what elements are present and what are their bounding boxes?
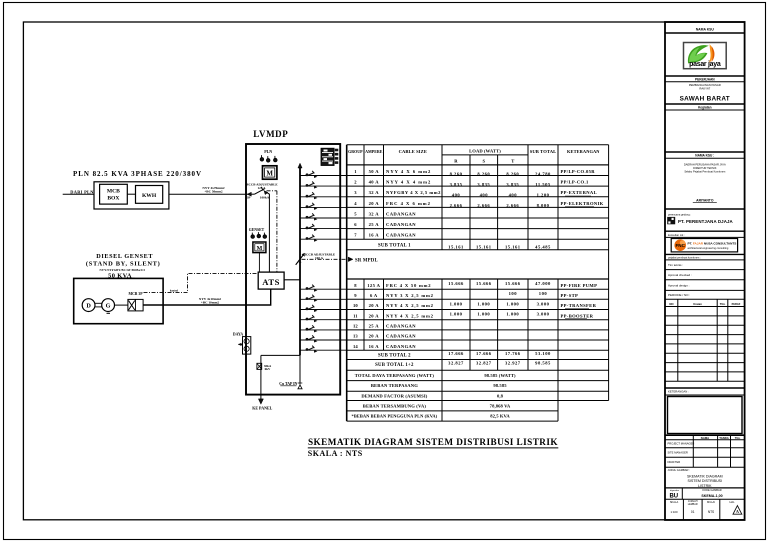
svg-text:T: T <box>511 159 514 164</box>
names table <box>665 435 745 467</box>
svg-text:15.161: 15.161 <box>476 245 492 250</box>
svg-text:DEMAND FACTOR (ASUMSI): DEMAND FACTOR (ASUMSI) <box>361 393 427 398</box>
svg-text:15.161: 15.161 <box>448 245 464 250</box>
svg-text:2.666: 2.666 <box>477 203 490 208</box>
svg-text:15.161: 15.161 <box>505 245 521 250</box>
svg-text:3.000: 3.000 <box>537 301 550 306</box>
svg-text:SUB TOTAL: SUB TOTAL <box>530 149 557 154</box>
title block header band <box>665 32 745 34</box>
svg-text:1.000: 1.000 <box>477 301 490 306</box>
svg-text:24.780: 24.780 <box>535 171 551 176</box>
svg-text:pasar jaya: pasar jaya <box>689 61 721 68</box>
branch circuit group 5 <box>300 217 347 219</box>
svg-text:TOTAL DAYA TERPASANG (WATT): TOTAL DAYA TERPASANG (WATT) <box>355 373 435 378</box>
svg-text:12: 12 <box>353 324 358 329</box>
svg-text:20 A: 20 A <box>369 313 380 318</box>
svg-text:SKALA : NTS: SKALA : NTS <box>308 449 363 458</box>
svg-text:NYY/NYFGBY/BC/AT/BOBa/0.5: NYY/NYFGBY/BC/AT/BOBa/0.5 <box>100 268 146 272</box>
svg-text:PLN: PLN <box>264 149 272 154</box>
svg-text:SITE MANAGER: SITE MANAGER <box>668 451 688 455</box>
branch circuit group 7 <box>300 238 347 240</box>
svg-text:45.485: 45.485 <box>535 245 551 250</box>
svg-text:PP/LP-CO.1: PP/LP-CO.1 <box>561 180 589 185</box>
svg-text:NYY 4 X 6 mm2: NYY 4 X 6 mm2 <box>386 169 431 174</box>
svg-text:perencana gedung :: perencana gedung : <box>668 212 691 216</box>
svg-text:CADANGAN: CADANGAN <box>386 334 416 339</box>
svg-text:G: G <box>106 303 111 310</box>
svg-text:S: S <box>482 159 485 164</box>
wire busbar bottom to arrester <box>261 354 300 356</box>
svg-text:3.835: 3.835 <box>477 182 490 187</box>
svg-text:1.000: 1.000 <box>450 312 463 317</box>
wire KWH to LVMDP <box>169 193 251 195</box>
svg-text:8.000: 8.000 <box>537 203 550 208</box>
svg-text:Aproval checked :: Aproval checked : <box>668 273 692 277</box>
svg-text:DIREKTUR TEKNIK: DIREKTUR TEKNIK <box>693 166 717 170</box>
svg-text:125 A: 125 A <box>367 283 380 288</box>
wire G to breaker <box>115 304 128 306</box>
branch circuit group 6 <box>300 228 347 230</box>
svg-text:15.666: 15.666 <box>448 281 464 286</box>
svg-text:KWH: KWH <box>142 193 157 199</box>
svg-text:8.260: 8.260 <box>477 171 490 176</box>
meter M GENSET <box>253 242 266 253</box>
svg-text:DRAFTER: DRAFTER <box>668 460 681 464</box>
svg-text:SISTEM DISTRIBUSI: SISTEM DISTRIBUSI <box>688 479 723 483</box>
branch circuit group 2 <box>300 185 347 187</box>
svg-text:LISTRIK: LISTRIK <box>698 484 712 488</box>
svg-text:PP-TRANSFER: PP-TRANSFER <box>561 303 597 308</box>
breaker MCCB incoming <box>247 192 251 196</box>
svg-text:BEBAN TERSAMBUNG (VA): BEBAN TERSAMBUNG (VA) <box>363 403 427 408</box>
wire genset to ATS <box>143 289 271 305</box>
svg-text:*BEBAN BEBAN PENGGUNA PLN (KVA: *BEBAN BEBAN PENGGUNA PLN (KVA) <box>352 414 438 419</box>
svg-text:100kA: 100kA <box>260 196 270 200</box>
svg-text:400: 400 <box>509 193 518 198</box>
svg-text:NYY 3 X 2,5 mm2: NYY 3 X 2,5 mm2 <box>386 293 434 298</box>
svg-text:3P: 3P <box>247 196 251 200</box>
svg-text:Uraian: Uraian <box>693 302 702 306</box>
svg-text:98.585 (WATT): 98.585 (WATT) <box>484 373 516 378</box>
branch circuit group 10 <box>300 309 347 311</box>
svg-text:78,868 VA: 78,868 VA <box>490 403 511 408</box>
svg-text:PROJECT MANAGER: PROJECT MANAGER <box>668 442 695 446</box>
svg-text:MCB 3P: MCB 3P <box>128 292 143 296</box>
svg-text:ARIYANTO: ARIYANTO <box>696 198 714 202</box>
title block kegiatan band <box>665 103 745 105</box>
metering device on main riser <box>243 337 251 355</box>
svg-text:NYY 4 X 4 mm2: NYY 4 X 4 mm2 <box>386 180 431 185</box>
svg-text:15.666: 15.666 <box>505 281 521 286</box>
breaker MCCB busbar section <box>296 253 305 265</box>
svg-text:25 A: 25 A <box>369 324 380 329</box>
coupling <box>95 302 101 304</box>
svg-text:2.666: 2.666 <box>506 203 519 208</box>
svg-text:digambar: digambar <box>670 489 679 492</box>
svg-text:14: 14 <box>353 344 358 349</box>
svg-text:GROUP: GROUP <box>348 149 363 154</box>
diesel engine D <box>82 299 95 312</box>
svg-text:BEBAN TERPASANG: BEBAN TERPASANG <box>371 383 418 388</box>
svg-text:CADANGAN: CADANGAN <box>386 222 416 227</box>
feeder line to SR MPDL dash-dot <box>302 258 347 260</box>
control line PLN sense dash-dot <box>276 191 278 272</box>
svg-text:NYY 4 X 2,5 mm2: NYY 4 X 2,5 mm2 <box>386 303 434 308</box>
bottom info row <box>670 499 735 520</box>
svg-text:1.200: 1.200 <box>537 193 550 198</box>
svg-text:Aproval design :: Aproval design : <box>668 283 690 287</box>
busbar vertical <box>299 165 301 355</box>
svg-text:A: A <box>736 509 739 514</box>
svg-text:CADANGAN: CADANGAN <box>386 233 416 238</box>
svg-text:PERIODE / NO :: PERIODE / NO : <box>668 293 690 297</box>
branch circuit group 14 <box>300 349 347 351</box>
svg-text:KETERANGAN: KETERANGAN <box>567 149 600 154</box>
svg-text:NYY 4 X 2,5 mm2: NYY 4 X 2,5 mm2 <box>386 313 434 318</box>
svg-text:TGL: TGL <box>720 302 726 306</box>
svg-text:MULAI: MULAI <box>707 500 715 504</box>
svg-text:100: 100 <box>539 291 548 296</box>
svg-text:SUB TOTAL 1: SUB TOTAL 1 <box>378 244 411 249</box>
logo FNC consultants <box>671 239 737 252</box>
title block nama ksu band <box>665 151 745 153</box>
panel box MCB-KWH outer <box>94 182 169 209</box>
meter KWH <box>136 186 163 204</box>
svg-text:82,5 KVA: 82,5 KVA <box>490 414 510 419</box>
terminal block legend <box>321 148 338 165</box>
svg-text:1.000: 1.000 <box>506 301 519 306</box>
svg-text:98.585: 98.585 <box>493 383 507 388</box>
svg-text:+BC 50mm2: +BC 50mm2 <box>204 190 223 194</box>
svg-text:16 A: 16 A <box>369 233 380 238</box>
svg-text:53.100: 53.100 <box>535 351 551 356</box>
keterangan underlines <box>565 195 591 197</box>
svg-text:32.827: 32.827 <box>476 360 492 365</box>
svg-text:PP-BOOSTER: PP-BOOSTER <box>561 313 594 318</box>
svg-text:32 A: 32 A <box>369 211 380 216</box>
svg-text:KE PANEL: KE PANEL <box>252 405 272 410</box>
svg-text:SAWAH BARAT: SAWAH BARAT <box>680 96 730 103</box>
svg-text:CADANGAN: CADANGAN <box>386 324 416 329</box>
svg-text:DAERAH PERUSAHA PASAR JAYA: DAERAH PERUSAHA PASAR JAYA <box>684 163 726 167</box>
svg-text:32.927: 32.927 <box>505 360 521 365</box>
svg-text:M: M <box>257 246 263 252</box>
ground symbol <box>298 383 303 389</box>
svg-text:8.260: 8.260 <box>450 171 463 176</box>
svg-text:LOAD (WATT): LOAD (WATT) <box>469 148 501 153</box>
branch circuit group 1 <box>300 175 347 177</box>
svg-text:40 A: 40 A <box>369 180 380 185</box>
svg-text:PLN 82.5 KVA 3PHASE 220/380V: PLN 82.5 KVA 3PHASE 220/380V <box>73 170 202 178</box>
svg-text:HAL: HAL <box>729 500 735 504</box>
svg-text:PP-FIRE PUMP: PP-FIRE PUMP <box>561 283 598 288</box>
svg-text:LVMDP: LVMDP <box>253 129 288 139</box>
meter M PLN <box>263 166 277 179</box>
surge arrester branch down <box>260 355 262 400</box>
svg-text:6 A: 6 A <box>370 293 378 298</box>
svg-text:Tim teknis :: Tim teknis : <box>668 263 683 267</box>
svg-text:SKEMATIK DIAGRAM: SKEMATIK DIAGRAM <box>687 475 723 479</box>
svg-text:D: D <box>86 303 91 310</box>
svg-text:17.666: 17.666 <box>448 351 464 356</box>
svg-text:400: 400 <box>452 193 461 198</box>
svg-text:32 A: 32 A <box>369 190 380 195</box>
svg-text:PT. PERENTJANA DJAJA: PT. PERENTJANA DJAJA <box>678 219 734 224</box>
branch circuit group 9 <box>300 298 347 300</box>
MCB BOX <box>100 184 128 204</box>
svg-text:FNC: FNC <box>675 243 685 248</box>
svg-text:LEMBAR: LEMBAR <box>688 503 698 506</box>
genset enclosure box <box>74 278 163 323</box>
svg-text:100: 100 <box>509 291 518 296</box>
svg-text:NYFGBY 4 X 2,5 mm2: NYFGBY 4 X 2,5 mm2 <box>386 190 441 195</box>
svg-text:SKEMA-1,00: SKEMA-1,00 <box>701 494 722 498</box>
svg-text:CADANGAN: CADANGAN <box>386 344 416 349</box>
svg-text:16 A: 16 A <box>369 344 380 349</box>
svg-text:PARAF: PARAF <box>732 302 741 306</box>
generator G <box>102 299 115 312</box>
title block keterangan band <box>665 387 745 389</box>
branch circuit group 3 <box>300 196 347 198</box>
svg-text:PP-STP: PP-STP <box>561 293 579 298</box>
svg-text:konsultan mk :: konsultan mk : <box>668 233 685 237</box>
svg-text:MCB: MCB <box>107 189 120 195</box>
svg-text:(STAND BY, SILENT): (STAND BY, SILENT) <box>86 260 161 267</box>
title block frame <box>665 22 745 520</box>
svg-text:NAMA KSU: NAMA KSU <box>696 28 715 32</box>
svg-text:JUDUL GAMBAR :: JUDUL GAMBAR : <box>668 468 691 472</box>
svg-text:PP-EXTERNAL: PP-EXTERNAL <box>561 190 598 195</box>
branch circuit group 8 <box>300 288 347 290</box>
svg-text:01: 01 <box>691 510 695 514</box>
svg-text:GENSET: GENSET <box>249 228 265 232</box>
svg-text:M: M <box>266 169 273 177</box>
svg-text:pejabat pembuat komitmen :: pejabat pembuat komitmen : <box>668 255 701 259</box>
svg-text:DARI PLN: DARI PLN <box>70 189 94 194</box>
keterangan empty box <box>668 397 743 434</box>
load schedule table <box>347 145 609 421</box>
svg-text:2.666: 2.666 <box>450 203 463 208</box>
svg-text:SR MPDL: SR MPDL <box>355 259 378 264</box>
svg-text:3.000: 3.000 <box>537 312 550 317</box>
svg-text:0,8: 0,8 <box>497 393 504 398</box>
svg-text:PP-ELEKTRONIK: PP-ELEKTRONIK <box>561 201 604 206</box>
logo PT Perentjana Djaja <box>667 217 675 224</box>
title block pekerjaan band <box>665 75 745 77</box>
svg-text:KODE GAMBAR: KODE GAMBAR <box>702 488 721 492</box>
svg-text:+BC 10mm2: +BC 10mm2 <box>201 300 220 304</box>
svg-text:1.000: 1.000 <box>506 312 519 317</box>
branch circuit group 11 <box>300 319 347 321</box>
svg-text:SKEMATIK DIAGRAM SISTEM DISTRI: SKEMATIK DIAGRAM SISTEM DISTRIBUSI LISTR… <box>308 437 558 447</box>
feeder label SR MPDL <box>348 257 353 262</box>
svg-text:50 A: 50 A <box>369 169 380 174</box>
branch circuit group 13 <box>300 339 347 341</box>
svg-text:20 A: 20 A <box>369 334 380 339</box>
branch circuit group 4 <box>300 206 347 208</box>
wire from PLN source <box>63 193 94 195</box>
svg-text:BOX: BOX <box>107 196 119 202</box>
svg-text:PEKERJAAN: PEKERJAAN <box>695 77 715 81</box>
svg-text:20 A: 20 A <box>369 201 380 206</box>
svg-text:DIESEL GENSET: DIESEL GENSET <box>96 253 153 260</box>
svg-text:1:100: 1:100 <box>671 510 678 514</box>
ATS automatic transfer switch <box>258 272 284 289</box>
control line genset to ATS dash-dot <box>144 273 259 292</box>
wire ATS to busbar <box>284 279 300 281</box>
svg-text:PP/LP-CO.05R: PP/LP-CO.05R <box>561 169 596 174</box>
svg-text:architectural engineering cons: architectural engineering consulting <box>688 246 729 250</box>
svg-text:17.766: 17.766 <box>505 351 521 356</box>
logo pasar jaya <box>684 43 727 69</box>
svg-text:SUB TOTAL 1+2: SUB TOTAL 1+2 <box>375 363 414 368</box>
svg-text:DAYA: DAYA <box>233 333 244 337</box>
svg-text:RAKYAT: RAKYAT <box>699 87 710 91</box>
svg-text:NAMA KSU :: NAMA KSU : <box>695 154 714 158</box>
surge arrester <box>257 363 262 369</box>
svg-text:6kV: 6kV <box>265 367 271 371</box>
svg-text:kontrol: kontrol <box>170 289 178 292</box>
svg-text:ATS: ATS <box>262 277 280 287</box>
svg-text:98.585: 98.585 <box>535 360 551 365</box>
svg-text:Kegiatan: Kegiatan <box>698 105 712 109</box>
svg-text:15.666: 15.666 <box>476 281 492 286</box>
wire M genset to ATS <box>258 253 260 273</box>
branch circuit group 12 <box>300 329 347 331</box>
wire MCCB down to ATS <box>266 192 269 272</box>
svg-text:1.000: 1.000 <box>477 312 490 317</box>
svg-text:Selaku Pejabat Pembuat Komitme: Selaku Pejabat Pembuat Komitmen <box>684 169 726 173</box>
svg-text:13: 13 <box>353 334 358 339</box>
arrow tap left <box>238 343 242 345</box>
svg-text:AMPERE: AMPERE <box>365 149 383 154</box>
genset breaker box <box>128 299 143 311</box>
svg-text:NTS: NTS <box>708 510 714 514</box>
LVMDP panel enclosure <box>246 144 340 395</box>
svg-text:20 A: 20 A <box>369 303 380 308</box>
svg-text:CADANGAN: CADANGAN <box>386 211 416 216</box>
svg-text:17.666: 17.666 <box>476 351 492 356</box>
warning triangle logo <box>733 506 742 515</box>
svg-text:11: 11 <box>353 313 358 318</box>
svg-text:1.000: 1.000 <box>450 301 463 306</box>
svg-text:11.505: 11.505 <box>535 182 551 187</box>
svg-text:400: 400 <box>480 193 489 198</box>
svg-text:FRC 4 X 6 mm2: FRC 4 X 6 mm2 <box>386 201 431 206</box>
svg-text:FRC 4 X 50 mm2: FRC 4 X 50 mm2 <box>386 283 431 288</box>
svg-text:3.835: 3.835 <box>506 182 519 187</box>
svg-text:SUB TOTAL 2: SUB TOTAL 2 <box>378 354 411 359</box>
svg-text:Cu TAP IN: Cu TAP IN <box>279 382 297 386</box>
svg-text:PT. FAJAR NUSA CONSULTANTS: PT. FAJAR NUSA CONSULTANTS <box>688 241 737 245</box>
svg-text:SKALA: SKALA <box>670 500 679 504</box>
revision table <box>665 299 745 381</box>
svg-text:8.260: 8.260 <box>506 171 519 176</box>
svg-text:KETERANGAN :: KETERANGAN : <box>668 390 689 394</box>
svg-text:10: 10 <box>353 303 358 308</box>
svg-text:32.827: 32.827 <box>448 360 464 365</box>
svg-text:3.835: 3.835 <box>450 182 463 187</box>
title block perencana band <box>665 208 745 210</box>
svg-text:47.000: 47.000 <box>535 281 551 286</box>
svg-text:25 A: 25 A <box>369 222 380 227</box>
svg-text:R: R <box>454 159 458 164</box>
wire MCB to KWH <box>127 193 135 195</box>
svg-text:CABLE SIZE: CABLE SIZE <box>399 149 427 154</box>
